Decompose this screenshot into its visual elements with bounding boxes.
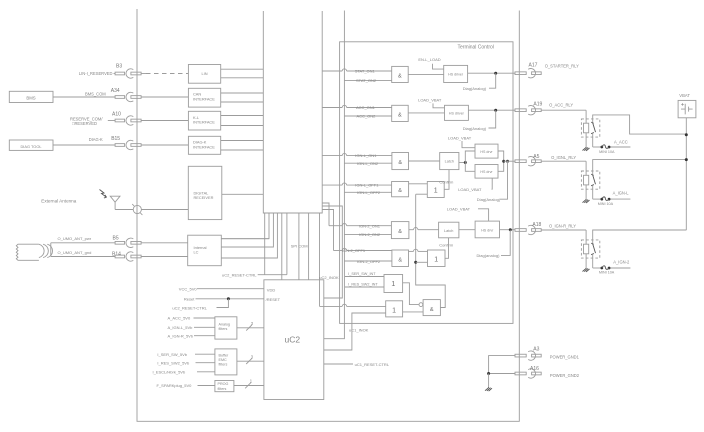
svg-text:A3: A3	[533, 347, 539, 353]
svg-text:IGN-2_OFF1: IGN-2_OFF1	[342, 248, 366, 253]
svg-text:A34: A34	[111, 88, 120, 94]
svg-text:STAT_ON1: STAT_ON1	[355, 69, 376, 74]
svg-text:uC1_INOK: uC1_INOK	[349, 328, 369, 333]
svg-text:Terminal Control: Terminal Control	[458, 45, 494, 51]
svg-text:A_IGN-R_5Vb: A_IGN-R_5Vb	[168, 333, 194, 338]
svg-text:SPI COM: SPI COM	[291, 244, 308, 249]
svg-text:LC: LC	[194, 250, 199, 255]
svg-text:uC2_RESET-CTRL: uC2_RESET-CTRL	[222, 273, 257, 278]
svg-text:uC2_RESET-CTRL: uC2_RESET-CTRL	[172, 305, 207, 310]
svg-text:Confirm: Confirm	[439, 242, 454, 247]
svg-text:I_RES_SW2_INT: I_RES_SW2_INT	[348, 283, 378, 287]
svg-text:I_SER_SW_INT: I_SER_SW_INT	[348, 272, 376, 276]
svg-text:&: &	[398, 74, 402, 80]
svg-text:□RESERVED: □RESERVED	[72, 121, 97, 126]
svg-text:A_IGN-2: A_IGN-2	[613, 260, 630, 265]
svg-text:Diag(Analog): Diag(Analog)	[463, 126, 487, 131]
svg-text:STAT_ON2: STAT_ON2	[356, 78, 377, 83]
svg-text:IGN-L_OFF2: IGN-L_OFF2	[357, 190, 381, 195]
svg-text:BMS: BMS	[26, 95, 35, 100]
svg-text:A_IGN-L: A_IGN-L	[613, 191, 630, 196]
svg-text:B14: B14	[112, 252, 121, 258]
svg-text:BMS_COM: BMS_COM	[85, 91, 106, 96]
svg-text:ACC_ON1: ACC_ON1	[356, 105, 376, 110]
svg-text:MINI 10A: MINI 10A	[598, 202, 614, 206]
svg-text:&: &	[398, 160, 402, 166]
svg-text:MINI 10A: MINI 10A	[599, 150, 615, 154]
svg-text:A_ACC_5V0: A_ACC_5V0	[168, 316, 191, 321]
svg-text:uC2_INOK: uC2_INOK	[319, 275, 339, 280]
svg-text:1: 1	[434, 188, 438, 195]
svg-text:B15: B15	[111, 136, 120, 142]
svg-text:A_ACC: A_ACC	[614, 139, 628, 144]
svg-text:1: 1	[392, 308, 396, 315]
svg-text:IGN-2_OFF2: IGN-2_OFF2	[357, 259, 381, 264]
svg-text:Analog: Analog	[219, 323, 230, 327]
svg-text:O_UMO_ANT_gnd: O_UMO_ANT_gnd	[58, 250, 92, 255]
svg-text:O_IGNL_RLY: O_IGNL_RLY	[551, 155, 576, 160]
svg-text:O_STARTER_RLY: O_STARTER_RLY	[545, 64, 579, 69]
svg-text:Latch: Latch	[445, 160, 454, 164]
svg-text:&: &	[398, 258, 402, 264]
svg-text:LIN: LIN	[201, 71, 207, 76]
svg-text:filters: filters	[219, 363, 228, 367]
svg-text:&: &	[398, 188, 402, 194]
svg-text:B5: B5	[113, 236, 119, 242]
svg-text:IGN-2_ON1: IGN-2_ON1	[359, 223, 381, 228]
svg-text:ACC_ON2: ACC_ON2	[357, 114, 377, 119]
svg-text:POWER_GND2: POWER_GND2	[550, 373, 580, 378]
svg-text:1: 1	[391, 281, 395, 288]
svg-text:Confirm: Confirm	[439, 180, 454, 185]
svg-text:Diag(Analog): Diag(Analog)	[463, 86, 487, 91]
svg-text:F_SPARKplug_5V0: F_SPARKplug_5V0	[157, 383, 193, 388]
svg-text:&: &	[430, 307, 434, 313]
svg-text:PROG: PROG	[218, 382, 229, 386]
svg-text:HS drvr: HS drvr	[480, 170, 493, 174]
svg-text:LIN-I_RESERVED: LIN-I_RESERVED	[79, 71, 113, 76]
svg-text:HS drvr: HS drvr	[480, 150, 493, 154]
svg-text:O_IGN-R_RLY: O_IGN-R_RLY	[549, 223, 576, 228]
svg-text:Diag(analog): Diag(analog)	[477, 253, 501, 258]
svg-text:A_IGN-L_5Vb: A_IGN-L_5Vb	[168, 325, 194, 330]
svg-text:External Antenna: External Antenna	[41, 198, 76, 203]
svg-text:O_UMO_ANT_pwr: O_UMO_ANT_pwr	[58, 236, 92, 241]
svg-text:O_ACC_RLY: O_ACC_RLY	[549, 102, 573, 107]
svg-text:Diag(Analog): Diag(Analog)	[477, 197, 501, 202]
svg-text:VDD: VDD	[267, 287, 276, 292]
svg-text:LOAD_VBAT: LOAD_VBAT	[458, 187, 482, 192]
svg-text:INTERFACE: INTERFACE	[193, 96, 215, 101]
svg-text:A18: A18	[532, 222, 541, 228]
svg-text:VBAT: VBAT	[679, 93, 690, 98]
svg-text:I_ESCL/Hbrk_5Vb: I_ESCL/Hbrk_5Vb	[153, 370, 186, 375]
svg-text:EMC: EMC	[219, 358, 228, 362]
svg-text:HS driver: HS driver	[449, 111, 465, 115]
svg-text:&: &	[398, 229, 402, 235]
svg-text:HS drvr: HS drvr	[481, 229, 494, 233]
svg-text:VCC_5V0: VCC_5V0	[179, 286, 198, 291]
svg-text:A5: A5	[533, 154, 539, 160]
svg-text:MINI 10A: MINI 10A	[599, 271, 615, 275]
svg-text:IGN-L_OFF1: IGN-L_OFF1	[355, 183, 379, 188]
svg-text:INTERFACE: INTERFACE	[193, 144, 215, 149]
svg-text:A16: A16	[530, 366, 539, 372]
svg-text:Reset: Reset	[184, 296, 195, 301]
svg-text:I_SER_SW_5Vb: I_SER_SW_5Vb	[157, 352, 187, 357]
svg-text:INTERFACE: INTERFACE	[193, 120, 215, 125]
svg-text:IGN-2_ON2: IGN-2_ON2	[359, 232, 381, 237]
svg-text:EN-L_LOAD: EN-L_LOAD	[418, 57, 440, 62]
svg-text:A19: A19	[533, 101, 542, 107]
svg-text:&: &	[398, 112, 402, 118]
svg-text:uC2: uC2	[285, 335, 301, 345]
svg-text:filters: filters	[218, 387, 227, 391]
svg-text:uC1_RESET-CTRL: uC1_RESET-CTRL	[355, 362, 390, 367]
svg-text:B3: B3	[116, 63, 122, 69]
svg-text:HS driver: HS driver	[448, 73, 464, 77]
svg-text:A10: A10	[112, 111, 121, 117]
svg-text:Latch: Latch	[444, 229, 453, 233]
svg-text:IGN-L_ON1: IGN-L_ON1	[355, 153, 377, 158]
svg-text:filters: filters	[219, 327, 228, 331]
svg-text:IGN-L_ON2: IGN-L_ON2	[357, 161, 379, 166]
svg-text:/RESET: /RESET	[266, 297, 281, 302]
svg-text:I_RES_SW2_5Vb: I_RES_SW2_5Vb	[157, 360, 190, 365]
svg-text:LOAD_VBAT: LOAD_VBAT	[447, 207, 471, 212]
svg-text:RECEIVER: RECEIVER	[194, 195, 214, 200]
svg-text:POWER_GND1: POWER_GND1	[550, 354, 580, 359]
svg-text:A17: A17	[529, 62, 538, 68]
svg-text:DIAG TOOL: DIAG TOOL	[20, 144, 42, 149]
svg-text:1: 1	[434, 257, 438, 264]
svg-text:Buffer: Buffer	[219, 354, 230, 358]
svg-text:LOAD_VBAT: LOAD_VBAT	[448, 136, 472, 141]
svg-text:LOAD_VBAT: LOAD_VBAT	[418, 97, 442, 102]
svg-text:DIAG-K: DIAG-K	[89, 137, 103, 142]
